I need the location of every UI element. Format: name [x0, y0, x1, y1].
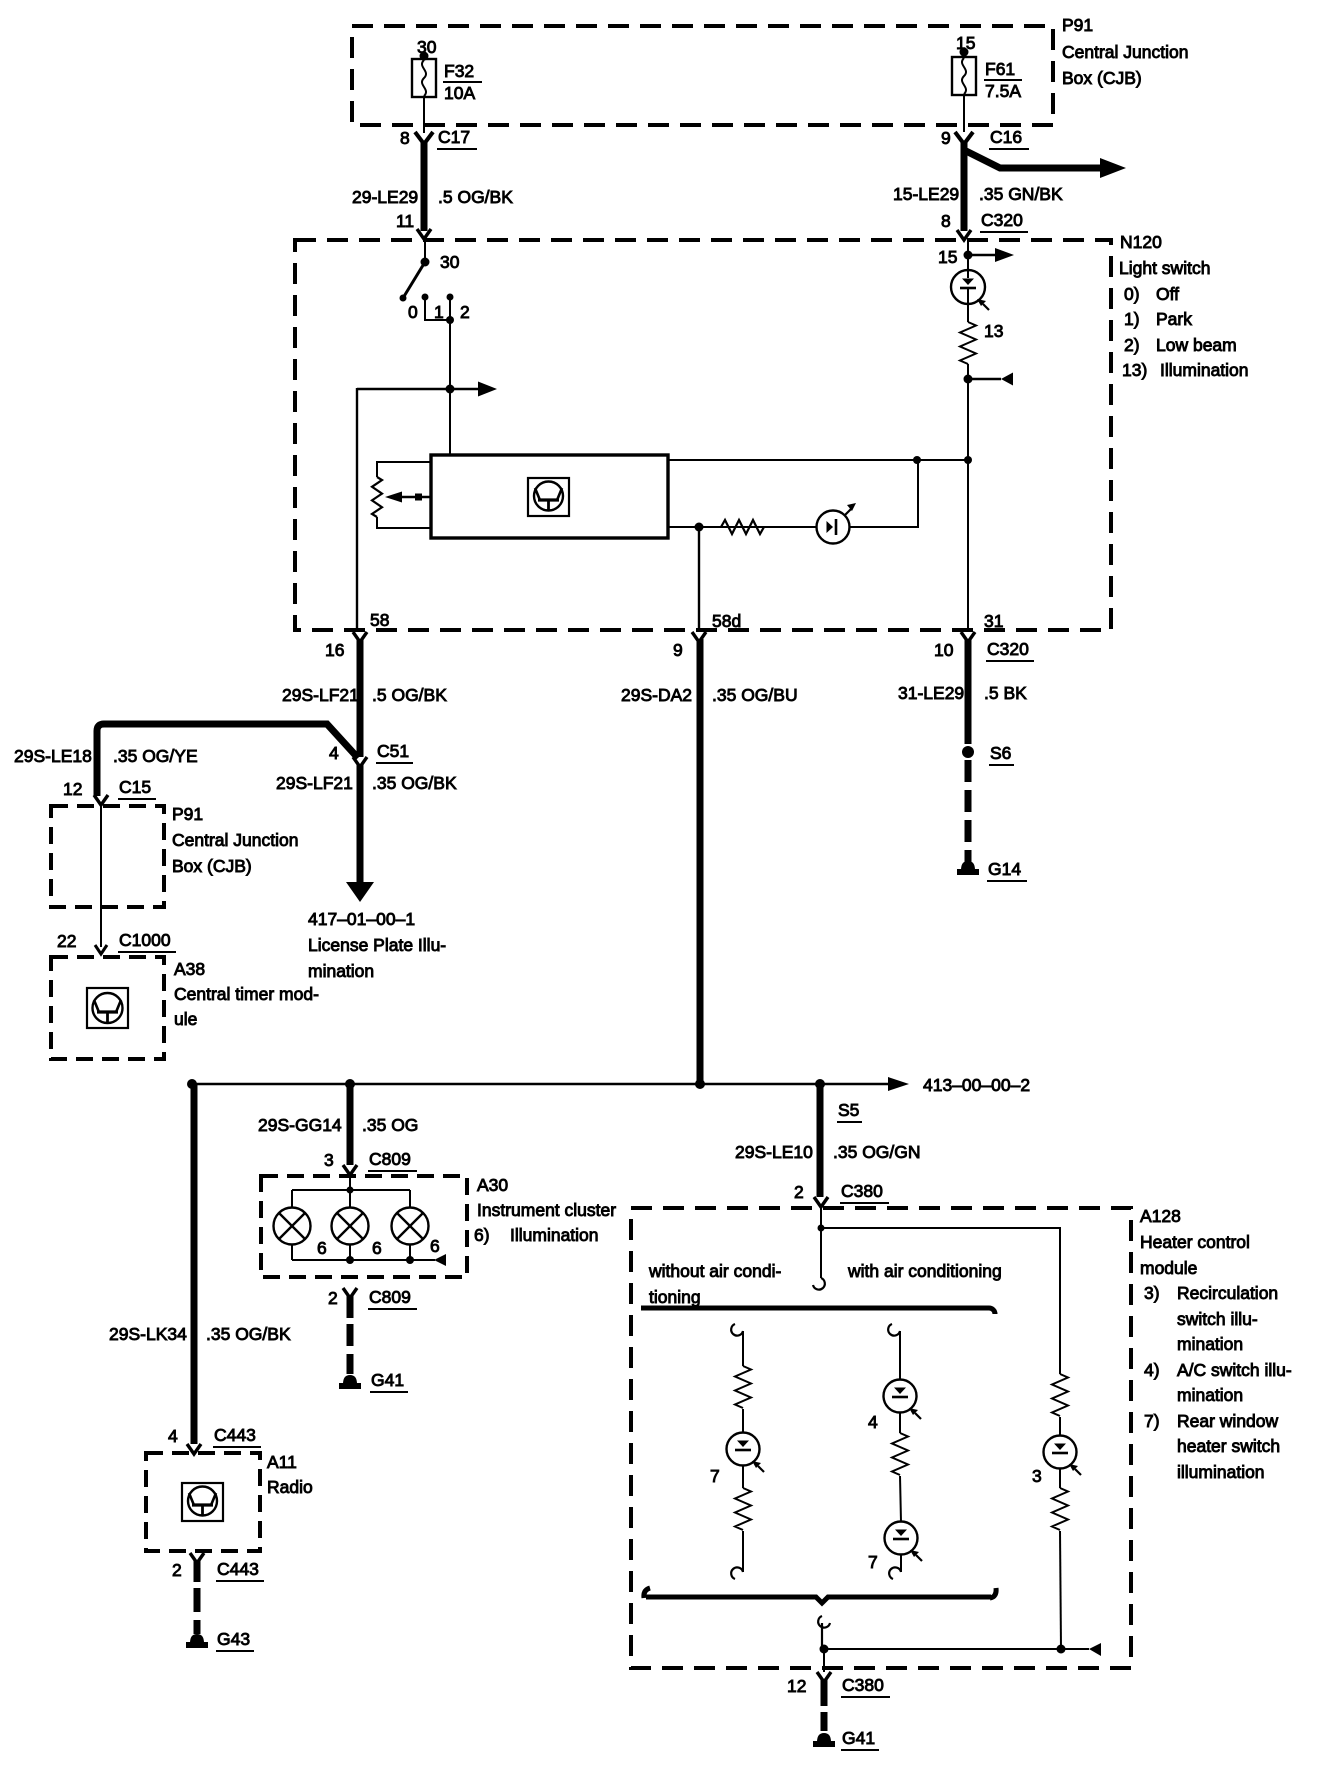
svg-text:C809: C809 — [369, 1287, 411, 1307]
svg-text:3: 3 — [324, 1150, 334, 1170]
central junction box P91 (lower) — [51, 804, 298, 907]
svg-text:4: 4 — [868, 1412, 878, 1432]
connector pin into N120 — [957, 230, 971, 240]
svg-text:.35 OG/BK: .35 OG/BK — [372, 773, 457, 793]
cluster lamp feed wiring — [292, 1172, 410, 1208]
transistor icon U1 (dimmer) — [528, 478, 569, 516]
junction on contact-2 line — [446, 316, 454, 324]
wire module lower output — [668, 526, 816, 528]
splice S6 — [962, 743, 1014, 765]
connector C17 pin 8 — [400, 127, 477, 149]
ground wire to G43 — [194, 1560, 201, 1634]
curl at bottom of branch — [889, 1567, 901, 1579]
resistor (A/C branch) — [892, 1433, 908, 1475]
svg-text:29S-LE10: 29S-LE10 — [735, 1142, 813, 1162]
svg-text:C51: C51 — [377, 741, 409, 761]
svg-text:C17: C17 — [438, 127, 470, 147]
svg-text:Heater control: Heater control — [1140, 1232, 1250, 1252]
svg-text:F32: F32 — [444, 61, 474, 81]
junction node — [446, 385, 455, 394]
svg-text:P91: P91 — [172, 804, 203, 824]
svg-text:module: module — [1140, 1258, 1197, 1278]
wire — [1059, 1417, 1061, 1436]
connector C1000 pin 22 — [57, 930, 176, 954]
wire — [742, 1466, 744, 1488]
junction node (29S-GG14 tap) — [345, 1079, 355, 1089]
svg-text:.35 OG: .35 OG — [362, 1115, 418, 1135]
wire LED to lamp line — [850, 460, 918, 527]
branch with A/C: wire — [899, 1331, 901, 1380]
svg-text:15: 15 — [938, 247, 957, 267]
svg-text:G14: G14 — [988, 859, 1021, 879]
transistor icon (central timer module) — [87, 988, 128, 1028]
svg-text:A/C switch illu-: A/C switch illu- — [1177, 1360, 1292, 1380]
LED 7 (with A/C) rear window heater switch illumination — [868, 1522, 922, 1573]
illumination lamp (LED) of light switch — [951, 270, 989, 322]
svg-text:9: 9 — [941, 128, 951, 148]
wire 29S-LE18 .35 OG/YE branch — [14, 724, 358, 796]
svg-text:mination: mination — [1177, 1385, 1243, 1405]
connector C380 pin 12 — [787, 1672, 890, 1697]
junction node (29S-LK34 tap) — [187, 1079, 197, 1089]
svg-text:Recirculation: Recirculation — [1177, 1283, 1278, 1303]
svg-text:.35 GN/BK: .35 GN/BK — [979, 184, 1063, 204]
wire 29-LE29 .5 OG/BK — [352, 141, 513, 239]
potentiometer (dimmer rheostat) — [372, 462, 431, 528]
svg-text:0: 0 — [408, 302, 418, 322]
svg-text:C443: C443 — [217, 1559, 259, 1579]
svg-text:N120: N120 — [1120, 232, 1162, 252]
wire 31-LE29 .5 BK — [898, 639, 1027, 744]
svg-text:Illumination: Illumination — [1160, 360, 1249, 380]
svg-text:2): 2) — [1124, 335, 1140, 355]
wire 29S-LE10 .35 OG/GN — [735, 1084, 921, 1197]
svg-text:C15: C15 — [119, 777, 151, 797]
svg-text:Central Junction: Central Junction — [1062, 42, 1188, 62]
svg-text:Central Junction: Central Junction — [172, 830, 298, 850]
junction node (58d feed) — [695, 1079, 705, 1089]
wire to C380 pin 12 — [823, 1649, 825, 1672]
wire fuse F61 to C16 — [963, 95, 965, 132]
svg-text:P91: P91 — [1062, 15, 1093, 35]
svg-text:30: 30 — [440, 252, 460, 272]
resistor 13 (lamp dropping) — [960, 321, 1003, 364]
resistor (recirculation branch, upper) — [1052, 1374, 1068, 1416]
wire resistor 13 to pin 31 — [967, 364, 969, 630]
cluster lamp 3 — [392, 1208, 429, 1245]
svg-text:Central timer mod-: Central timer mod- — [174, 984, 319, 1004]
fuse F32 10A — [412, 59, 482, 103]
svg-text:C320: C320 — [987, 639, 1029, 659]
LED 4 A/C switch illumination — [868, 1380, 921, 1433]
svg-text:6: 6 — [430, 1236, 440, 1256]
option break (curl) — [813, 1278, 825, 1290]
wire 29S-LF21 .5 OG/BK (pin 58) — [282, 639, 447, 757]
svg-text:Instrument cluster: Instrument cluster — [477, 1200, 616, 1220]
ground G41 (cluster) — [339, 1370, 408, 1392]
node 30 terminal dot — [417, 37, 437, 61]
connector C443 pin 2 — [172, 1553, 264, 1581]
wire 29S-LF21 .35 OG/BK to license plate — [276, 764, 457, 902]
svg-text:with air conditioning: with air conditioning — [847, 1261, 1002, 1281]
svg-text:Radio: Radio — [267, 1477, 313, 1497]
svg-text:C320: C320 — [981, 210, 1023, 230]
wire 29S-GG14 .35 OG — [258, 1084, 418, 1165]
switch pivot node — [421, 252, 460, 272]
svg-text:Rear window: Rear window — [1177, 1411, 1279, 1431]
svg-text:A38: A38 — [174, 959, 205, 979]
svg-text:29S-LE18: 29S-LE18 — [14, 746, 92, 766]
wire contact 1 jumper to contact 2 line — [425, 299, 450, 320]
svg-text:3): 3) — [1144, 1283, 1160, 1303]
svg-text:tioning: tioning — [649, 1287, 701, 1307]
svg-text:ule: ule — [174, 1009, 197, 1029]
svg-text:.5 BK: .5 BK — [984, 683, 1027, 703]
svg-text:6: 6 — [317, 1238, 327, 1258]
svg-text:6): 6) — [474, 1225, 490, 1245]
svg-text:Park: Park — [1156, 309, 1192, 329]
center curl below bottom bus — [818, 1616, 830, 1649]
svg-text:9: 9 — [673, 640, 683, 660]
LED 3 recirculation switch illumination — [1032, 1436, 1081, 1487]
wire pin 11 into switch — [424, 238, 426, 262]
branch with A/C: curl — [888, 1324, 900, 1336]
svg-text:G41: G41 — [371, 1370, 404, 1390]
wire branch to right (feed to other circuits) — [964, 150, 1126, 178]
branch without A/C: curl — [731, 1324, 743, 1336]
wire junction down-left to pin 58 — [356, 388, 358, 630]
svg-text:C1000: C1000 — [119, 930, 171, 950]
note 417-01-00-1 License Plate Illumination — [308, 909, 446, 981]
svg-text:.35 OG/BU: .35 OG/BU — [712, 685, 798, 705]
svg-text:Illumination: Illumination — [510, 1225, 599, 1245]
cluster lamp 2 — [332, 1208, 369, 1245]
svg-text:Off: Off — [1156, 284, 1179, 304]
svg-text:29S-LK34: 29S-LK34 — [109, 1324, 187, 1344]
svg-text:G43: G43 — [217, 1629, 250, 1649]
svg-text:4): 4) — [1144, 1360, 1160, 1380]
svg-text:mination: mination — [1177, 1334, 1243, 1354]
connector C809 pin 3 — [324, 1149, 417, 1175]
central junction box P91 (top) — [352, 15, 1188, 125]
cluster lamp 1 — [274, 1208, 311, 1245]
pin 15 node with arrow — [938, 240, 1014, 271]
wire contact 2 down to module — [449, 299, 451, 456]
svg-text:illumination: illumination — [1177, 1462, 1265, 1482]
wire — [899, 1413, 901, 1433]
wire fuse F32 to C17 — [423, 97, 425, 133]
LED 7 rear window heater switch illumination — [710, 1433, 764, 1487]
svg-text:7.5A: 7.5A — [985, 81, 1021, 101]
connector C443 pin 4 — [168, 1425, 261, 1454]
LED indicator (in switch) — [817, 503, 857, 544]
fuse F61 7.5A — [952, 57, 1022, 101]
svg-text:S5: S5 — [838, 1100, 859, 1120]
distribution wire 413-00-00-2 — [192, 1075, 1030, 1095]
svg-text:58d: 58d — [712, 611, 741, 631]
junction to pin 58d — [695, 523, 704, 532]
svg-text:F61: F61 — [985, 59, 1015, 79]
svg-text:S6: S6 — [990, 743, 1011, 763]
svg-text:.35 OG/YE: .35 OG/YE — [113, 746, 198, 766]
connector pin 10 / C320 below N120 — [934, 632, 1034, 661]
svg-text:Box (CJB): Box (CJB) — [172, 856, 252, 876]
variant labels — [648, 1261, 1002, 1307]
svg-text:31-LE29: 31-LE29 — [898, 683, 964, 703]
cluster lamp return wiring with pin 6 labels — [292, 1236, 446, 1266]
svg-text:12: 12 — [63, 779, 82, 799]
wire — [1059, 1469, 1061, 1488]
ground G43 — [186, 1629, 254, 1651]
ground wire to G41 (cluster) — [347, 1295, 354, 1374]
potentiometer wiper arrow — [385, 492, 431, 503]
resistor (series, LED feed) — [721, 520, 764, 534]
svg-text:.35 OG/BK: .35 OG/BK — [206, 1324, 291, 1344]
svg-text:30: 30 — [417, 37, 437, 57]
junction to recirculation branch — [818, 1225, 825, 1232]
svg-text:Box (CJB): Box (CJB) — [1062, 68, 1142, 88]
svg-text:12: 12 — [787, 1676, 806, 1696]
svg-text:29S-GG14: 29S-GG14 — [258, 1115, 342, 1135]
wire module output top to lamp line — [668, 456, 972, 464]
svg-text:15: 15 — [956, 33, 975, 53]
svg-text:7): 7) — [1144, 1411, 1160, 1431]
svg-text:8: 8 — [941, 211, 951, 231]
wire recirculation branch to return line — [1060, 1531, 1061, 1649]
svg-text:29S-LF21: 29S-LF21 — [276, 773, 353, 793]
svg-text:A30: A30 — [477, 1175, 508, 1195]
svg-text:switch illu-: switch illu- — [1177, 1309, 1258, 1329]
svg-text:29-LE29: 29-LE29 — [352, 187, 418, 207]
svg-text:0): 0) — [1124, 284, 1140, 304]
svg-text:10: 10 — [934, 640, 954, 660]
svg-text:29S-LF21: 29S-LF21 — [282, 685, 359, 705]
return line with incoming arrow — [824, 1643, 1101, 1656]
svg-text:A11: A11 — [267, 1452, 297, 1472]
resistor (rear window sw illum, lower) — [735, 1488, 751, 1530]
svg-text:16: 16 — [325, 640, 344, 660]
connector C380 pin 2 — [794, 1181, 889, 1207]
wire 29S-DA2 .35 OG/BU (pin 58d) — [621, 639, 798, 1084]
svg-text:C809: C809 — [369, 1149, 411, 1169]
svg-text:C443: C443 — [214, 1425, 256, 1445]
light switch N120 box — [295, 232, 1249, 630]
svg-text:58: 58 — [370, 610, 389, 630]
connector C15 pin 12 — [63, 777, 156, 805]
svg-text:2: 2 — [172, 1560, 182, 1580]
option bus bar (bottom) — [644, 1588, 996, 1603]
switch contacts 0 1 2 — [408, 294, 470, 323]
curl at bottom of branch — [731, 1567, 743, 1579]
connector C16 pin 9 — [941, 127, 1029, 149]
heater control module A128 box — [631, 1206, 1292, 1668]
instrument cluster A30 box — [261, 1175, 616, 1277]
transistor icon (radio) — [182, 1483, 223, 1521]
connector pin 16 below N120 — [325, 632, 367, 660]
svg-text:mination: mination — [308, 961, 374, 981]
svg-text:2: 2 — [794, 1182, 804, 1202]
svg-text:8: 8 — [400, 128, 410, 148]
svg-text:2: 2 — [328, 1288, 338, 1308]
wire junction to right branch — [821, 1228, 1060, 1374]
svg-text:3: 3 — [1032, 1466, 1042, 1486]
svg-text:11: 11 — [396, 211, 414, 231]
svg-text:417–01–00–1: 417–01–00–1 — [308, 909, 415, 929]
splice S5 — [837, 1100, 862, 1122]
svg-text:.35 OG/GN: .35 OG/GN — [833, 1142, 921, 1162]
return junction node — [820, 1645, 829, 1654]
junction node (recirculation branch) — [1057, 1645, 1066, 1654]
svg-text:13): 13) — [1122, 360, 1147, 380]
radio A11 box — [146, 1452, 313, 1551]
ground G41 — [813, 1728, 879, 1750]
connector C51 pin 4 — [329, 741, 413, 767]
wire — [742, 1409, 744, 1433]
branch without A/C: wire — [742, 1331, 744, 1366]
svg-text:heater switch: heater switch — [1177, 1436, 1280, 1456]
wire C15 to C1000 — [100, 803, 102, 947]
resistor (rear window sw illum, upper) — [735, 1366, 751, 1408]
svg-text:29S-DA2: 29S-DA2 — [621, 685, 692, 705]
svg-text:413–00–00–2: 413–00–00–2 — [923, 1075, 1030, 1095]
splice S5 node — [815, 1079, 825, 1089]
svg-text:License Plate Illu-: License Plate Illu- — [308, 935, 446, 955]
svg-text:2: 2 — [460, 302, 470, 322]
node 15 terminal dot — [956, 33, 975, 57]
option bus bar (top) — [641, 1308, 995, 1314]
wire pin 58d down inside box — [698, 527, 700, 630]
svg-text:.5 OG/BK: .5 OG/BK — [438, 187, 513, 207]
svg-text:without air condi-: without air condi- — [648, 1261, 781, 1281]
wire to bottom bus — [742, 1531, 744, 1572]
svg-text:C380: C380 — [841, 1181, 883, 1201]
svg-text:7: 7 — [868, 1552, 878, 1572]
connector pin 9 below N120 — [673, 632, 706, 660]
wire to bottom bus — [900, 1555, 902, 1572]
svg-text:4: 4 — [329, 743, 339, 763]
svg-text:1): 1) — [1124, 309, 1140, 329]
svg-text:G41: G41 — [842, 1728, 875, 1748]
dimmer module box — [431, 455, 668, 538]
svg-text:.5 OG/BK: .5 OG/BK — [372, 685, 447, 705]
junction with incoming arrow — [964, 373, 1014, 386]
ground wire to G41 — [821, 1679, 828, 1731]
svg-text:4: 4 — [168, 1426, 178, 1446]
svg-text:A128: A128 — [1140, 1206, 1181, 1226]
switch arm — [400, 262, 426, 302]
wire 15-LE29 .35 GN/BK — [893, 141, 1063, 232]
svg-text:Light switch: Light switch — [1119, 258, 1210, 278]
svg-text:C380: C380 — [842, 1675, 884, 1695]
svg-text:7: 7 — [710, 1466, 720, 1486]
wire 29S-LK34 .35 OG/BK — [109, 1084, 291, 1444]
central timer module A38 box — [51, 957, 319, 1059]
resistor (recirculation branch, lower) — [1052, 1488, 1068, 1530]
svg-text:13: 13 — [984, 321, 1003, 341]
svg-text:C16: C16 — [990, 127, 1022, 147]
svg-text:22: 22 — [57, 931, 76, 951]
svg-text:15-LE29: 15-LE29 — [893, 184, 959, 204]
svg-text:Low beam: Low beam — [1156, 335, 1237, 355]
svg-text:10A: 10A — [444, 83, 475, 103]
wire — [900, 1476, 901, 1522]
wire C380-2 into module — [820, 1204, 822, 1278]
connector C809 pin 2 — [328, 1287, 417, 1309]
wire junction to right with arrow — [357, 382, 497, 397]
svg-text:6: 6 — [372, 1238, 382, 1258]
svg-text:31: 31 — [984, 611, 1003, 631]
ground wire to G14 (dashed) — [965, 760, 972, 862]
ground G14 — [957, 859, 1027, 881]
